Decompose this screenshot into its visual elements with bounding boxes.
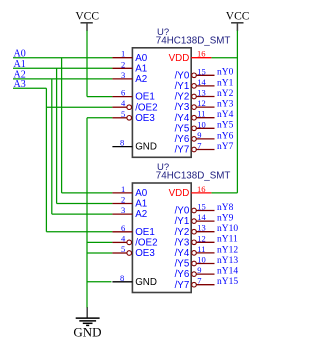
svg-text:5: 5 [121, 109, 125, 119]
svg-text:OE3: OE3 [135, 248, 155, 259]
svg-text:2: 2 [121, 195, 125, 205]
ground symbol GND (bottom) [73, 307, 101, 340]
wire A2 horizontal to U1 pin 3 [13, 78, 112, 80]
svg-text:nY13: nY13 [217, 256, 238, 266]
svg-text:nY11: nY11 [217, 235, 238, 245]
svg-text:A0: A0 [135, 188, 148, 199]
wire A1 horizontal to U2 pin 2 [57, 203, 113, 205]
U1 pin 12 (/Y3) stub [192, 105, 215, 110]
svg-text:10: 10 [197, 255, 206, 265]
U1 pin 9 (/Y6) stub [192, 137, 215, 142]
svg-text:1: 1 [121, 49, 125, 59]
svg-text:/Y4: /Y4 [175, 248, 190, 259]
svg-text:11: 11 [197, 244, 205, 254]
svg-text:12: 12 [197, 98, 206, 108]
svg-text:8: 8 [120, 273, 124, 283]
wire A1 horizontal to U1 pin 2 [13, 67, 112, 69]
wire GND rail to U2 pin 8 [87, 281, 112, 283]
svg-text:GND: GND [135, 142, 157, 153]
svg-text:nY10: nY10 [217, 224, 238, 234]
svg-text:/Y5: /Y5 [175, 259, 190, 270]
U2 pin 2 (A1) stub [112, 203, 132, 205]
svg-text:nY6: nY6 [217, 131, 234, 141]
svg-text:/Y2: /Y2 [175, 92, 190, 103]
svg-text:/Y6: /Y6 [175, 134, 190, 145]
svg-text:2: 2 [121, 59, 125, 69]
svg-text:/Y4: /Y4 [175, 113, 190, 124]
svg-text:A1: A1 [135, 199, 147, 210]
svg-text:nY7: nY7 [217, 142, 234, 152]
svg-text:nY15: nY15 [217, 277, 238, 287]
svg-text:nY8: nY8 [217, 203, 234, 213]
svg-text:A1: A1 [135, 63, 147, 74]
U2 pin 11 (/Y4) stub [192, 251, 215, 256]
svg-text:7: 7 [197, 141, 201, 151]
U1 pin 5 (OE3) stub [112, 116, 131, 121]
U1 pin 14 (/Y1) stub [192, 84, 215, 89]
svg-text:14: 14 [197, 212, 206, 222]
svg-text:3: 3 [121, 70, 125, 80]
svg-text:/Y1: /Y1 [175, 81, 190, 92]
svg-text:8: 8 [120, 138, 124, 148]
svg-text:/OE2: /OE2 [135, 238, 157, 249]
U2 pin 6 (OE1) stub [112, 231, 132, 233]
wire A2 horizontal to U2 pin 3 [52, 213, 113, 215]
svg-text:/Y3: /Y3 [175, 102, 190, 113]
svg-text:16: 16 [197, 184, 206, 194]
power symbol VCC (top right) [226, 11, 250, 31]
U1 pin 7 (/Y7) stub [192, 147, 215, 152]
svg-text:nY3: nY3 [217, 100, 234, 110]
svg-text:A0: A0 [135, 53, 148, 64]
svg-text:nY0: nY0 [217, 68, 234, 78]
wire VCC left rail [86, 31, 88, 97]
svg-text:/Y6: /Y6 [175, 269, 190, 280]
svg-text:11: 11 [197, 109, 205, 119]
svg-text:nY14: nY14 [217, 267, 238, 277]
svg-text:nY12: nY12 [217, 245, 238, 255]
U1 pin 11 (/Y4) stub [192, 115, 215, 120]
wire A0 horizontal to U1 pin 1 [13, 57, 112, 59]
U2 pin 14 (/Y1) stub [192, 219, 215, 224]
IC U1 74HC138D_SMT body [132, 48, 191, 158]
svg-text:5: 5 [121, 244, 125, 254]
svg-text:nY4: nY4 [217, 110, 234, 120]
svg-text:nY2: nY2 [217, 89, 234, 99]
wire A3 to U1 pin 4 [46, 106, 112, 108]
wire A1 vertical branch [56, 68, 58, 203]
wire U1 pin 16 to VCC rail [211, 57, 237, 59]
wire GND rail vertical [86, 118, 88, 308]
power symbol VCC (top left) [75, 11, 99, 31]
U2 pin 12 (/Y3) stub [192, 240, 215, 245]
U1 pin 1 (A0) stub [112, 57, 132, 59]
svg-text:/Y2: /Y2 [175, 227, 190, 238]
svg-text:6: 6 [121, 88, 125, 98]
U2 pin 10 (/Y5) stub [192, 261, 215, 266]
svg-text:OE3: OE3 [135, 113, 155, 124]
svg-text:12: 12 [197, 233, 206, 243]
svg-text:74HC138D_SMT: 74HC138D_SMT [156, 36, 231, 47]
svg-text:VDD: VDD [169, 188, 190, 199]
wire GND rail to U2 pin 5 [87, 252, 112, 254]
U1 pin 16 (VDD) stub [191, 57, 211, 59]
svg-text:A2: A2 [135, 209, 147, 220]
svg-text:15: 15 [197, 66, 206, 76]
svg-text:14: 14 [197, 77, 206, 87]
svg-text:GND: GND [73, 325, 101, 340]
svg-text:/Y0: /Y0 [175, 206, 190, 217]
U2 pin 15 (/Y0) stub [192, 208, 215, 213]
svg-text:GND: GND [135, 277, 157, 288]
svg-text:10: 10 [197, 119, 206, 129]
U1 pin 13 (/Y2) stub [192, 94, 215, 99]
svg-text:nY5: nY5 [217, 121, 234, 131]
IC U2 74HC138D_SMT body [132, 183, 191, 293]
svg-text:OE1: OE1 [135, 227, 155, 238]
svg-text:13: 13 [197, 223, 206, 233]
U2 pin 13 (/Y2) stub [192, 229, 215, 234]
U1 pin 10 (/Y5) stub [192, 126, 215, 131]
U1 pin 8 (GND) stub [112, 146, 132, 148]
svg-text:/Y5: /Y5 [175, 123, 190, 134]
svg-text:15: 15 [197, 202, 206, 212]
svg-text:VDD: VDD [169, 53, 190, 64]
U2 pin 1 (A0) stub [112, 192, 132, 194]
svg-text:nY1: nY1 [217, 78, 234, 88]
wire A2 vertical branch [51, 79, 53, 214]
svg-text:13: 13 [197, 88, 206, 98]
wire GND rail to U2 pin 4 [87, 241, 112, 243]
svg-text:/Y7: /Y7 [175, 145, 190, 156]
U2 pin 5 (OE3) stub [112, 251, 131, 256]
svg-text:/Y1: /Y1 [175, 216, 190, 227]
svg-text:9: 9 [197, 130, 201, 140]
svg-text:A2: A2 [135, 74, 147, 85]
U1 pin 6 (OE1) stub [112, 96, 132, 98]
svg-text:/Y3: /Y3 [175, 237, 190, 248]
svg-text:/Y7: /Y7 [175, 280, 190, 291]
U1 pin 3 (A2) stub [112, 78, 132, 80]
wire A3 vertical [45, 88, 47, 232]
svg-text:74HC138D_SMT: 74HC138D_SMT [156, 171, 231, 182]
svg-text:/OE2: /OE2 [135, 102, 157, 113]
U1 pin 15 (/Y0) stub [192, 73, 215, 78]
wire A3 to U2 pin 6 [46, 231, 112, 233]
svg-text:1: 1 [121, 184, 125, 194]
wire A3 horizontal [13, 87, 46, 89]
U2 pin 3 (A2) stub [112, 213, 132, 215]
wire A0 horizontal to U2 pin 1 [62, 192, 113, 194]
wire VCC right rail [236, 31, 238, 193]
svg-text:VCC: VCC [226, 11, 250, 23]
wire A0 vertical branch [61, 58, 63, 193]
svg-text:OE1: OE1 [135, 92, 155, 103]
U1 pin 2 (A1) stub [112, 67, 132, 69]
U2 pin 8 (GND) stub [112, 281, 132, 283]
U1 pin 4 (/OE2) stub [112, 105, 131, 110]
U2 pin 9 (/Y6) stub [192, 272, 215, 277]
wire U2 pin 16 to VCC rail [211, 192, 237, 194]
svg-text:16: 16 [197, 49, 206, 59]
svg-text:9: 9 [197, 265, 201, 275]
svg-text:/Y0: /Y0 [175, 70, 190, 81]
U2 pin 4 (/OE2) stub [112, 240, 131, 245]
wire VCC to U1 pin 6 [87, 96, 112, 98]
U2 pin 16 (VDD) stub [191, 192, 211, 194]
U2 pin 7 (/Y7) stub [192, 282, 215, 287]
wire U1 pin 5 to GND rail [87, 117, 112, 119]
svg-text:nY9: nY9 [217, 214, 234, 224]
svg-text:6: 6 [121, 223, 125, 233]
svg-text:7: 7 [197, 276, 201, 286]
svg-text:VCC: VCC [75, 11, 99, 23]
svg-text:3: 3 [121, 205, 125, 215]
